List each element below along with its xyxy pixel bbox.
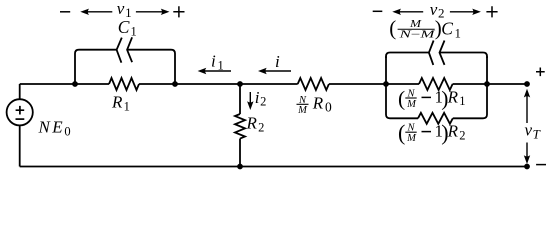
node dot C1 left	[72, 81, 78, 87]
capacitor (M/(N-M))C1 right plate	[440, 41, 445, 65]
node dot right block left	[383, 81, 389, 87]
svg-text:R0: R0	[312, 94, 332, 115]
label (N/M)R0	[297, 94, 332, 116]
wire top: R0 to right block	[329, 83, 419, 85]
v2 arrow right	[450, 9, 481, 15]
wire C1 branch right riser	[127, 50, 175, 84]
i arrow	[258, 68, 291, 74]
node dot R2 top	[237, 81, 243, 87]
node dot terminal bottom	[524, 164, 530, 170]
node dot R2 bottom	[237, 164, 243, 170]
label (M/(N-M))C1	[389, 16, 461, 41]
svg-text:(: (	[389, 16, 396, 40]
svg-text:M: M	[409, 19, 423, 30]
node dot C1 right	[172, 81, 178, 87]
wire bottom rail	[20, 166, 527, 168]
vT arrow down	[524, 143, 530, 165]
wire right block bottom branch left	[386, 115, 418, 119]
svg-text:(: (	[398, 120, 405, 145]
svg-text:(: (	[398, 86, 405, 110]
svg-text:C1: C1	[118, 17, 137, 39]
v1 arrow left	[80, 9, 112, 15]
resistor R1	[109, 78, 139, 90]
svg-text:R1: R1	[111, 93, 130, 114]
voltage source NE0	[7, 99, 33, 125]
svg-text:M: M	[406, 133, 417, 144]
terminal minus sign	[536, 164, 546, 166]
svg-text:vT: vT	[525, 121, 541, 142]
label (N/M-1)R1	[398, 86, 465, 110]
v2 minus sign	[373, 10, 383, 12]
wire left rail top	[19, 84, 21, 99]
resistor (N/M-1)R2	[418, 113, 453, 124]
wire R2 branch bottom	[239, 139, 241, 167]
minus sign inside source	[16, 118, 25, 120]
resistor (N/M-1)R1	[419, 78, 453, 90]
wire R2 branch top	[239, 84, 241, 114]
wire top: R1 to R0	[139, 83, 298, 85]
svg-text:i1: i1	[211, 52, 224, 73]
svg-text:NE0: NE0	[38, 118, 74, 139]
wire right block bottom branch right	[453, 115, 487, 119]
resistor (N/M)R0	[298, 78, 329, 90]
wire top: right block to terminal	[453, 83, 527, 85]
svg-text:N−M: N−M	[398, 30, 437, 41]
wire right block left vertical	[385, 56, 387, 114]
svg-text:i2: i2	[255, 88, 267, 109]
svg-text:R2: R2	[246, 114, 265, 135]
wire left rail bottom	[19, 125, 21, 166]
wire top: source to R1	[20, 83, 109, 85]
plus sign inside source	[16, 106, 25, 115]
svg-text:i: i	[275, 52, 280, 71]
svg-text:M: M	[406, 99, 417, 110]
wire right block right vertical	[486, 56, 488, 114]
terminal plus sign	[536, 68, 545, 77]
vT arrow up	[524, 89, 530, 123]
wire C1 branch left riser	[75, 50, 117, 84]
svg-text:M: M	[297, 105, 308, 116]
capacitor C1 left plate	[117, 38, 122, 63]
resistor R2	[235, 114, 245, 139]
svg-text:R1: R1	[447, 87, 466, 108]
wire right block top branch	[386, 53, 487, 59]
v1 minus sign	[60, 11, 70, 13]
svg-text:R2: R2	[447, 122, 466, 143]
node dot right block right	[484, 81, 490, 87]
i1 arrow	[198, 68, 231, 74]
capacitor (M/(N-M))C1 left plate	[429, 41, 434, 65]
v2 arrow left	[392, 9, 423, 15]
v2 plus sign	[486, 6, 497, 17]
node dot terminal top	[524, 81, 530, 87]
label (N/M-1)R2	[398, 120, 465, 145]
i2 arrow	[247, 92, 253, 110]
v1 plus sign	[173, 6, 184, 17]
capacitor C1 right plate	[127, 37, 132, 62]
svg-text:C1: C1	[441, 19, 461, 41]
v1 arrow right	[136, 9, 170, 15]
